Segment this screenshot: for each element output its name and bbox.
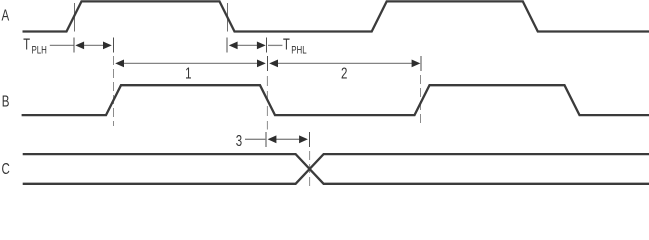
svg-text:TPLH: TPLH (23, 36, 47, 57)
svg-text:B: B (2, 91, 10, 109)
svg-text:TPHL: TPHL (283, 36, 307, 57)
svg-text:A: A (2, 6, 10, 24)
svg-text:3: 3 (236, 131, 243, 149)
svg-text:1: 1 (185, 64, 192, 82)
svg-text:C: C (2, 159, 10, 177)
svg-text:2: 2 (341, 64, 348, 82)
